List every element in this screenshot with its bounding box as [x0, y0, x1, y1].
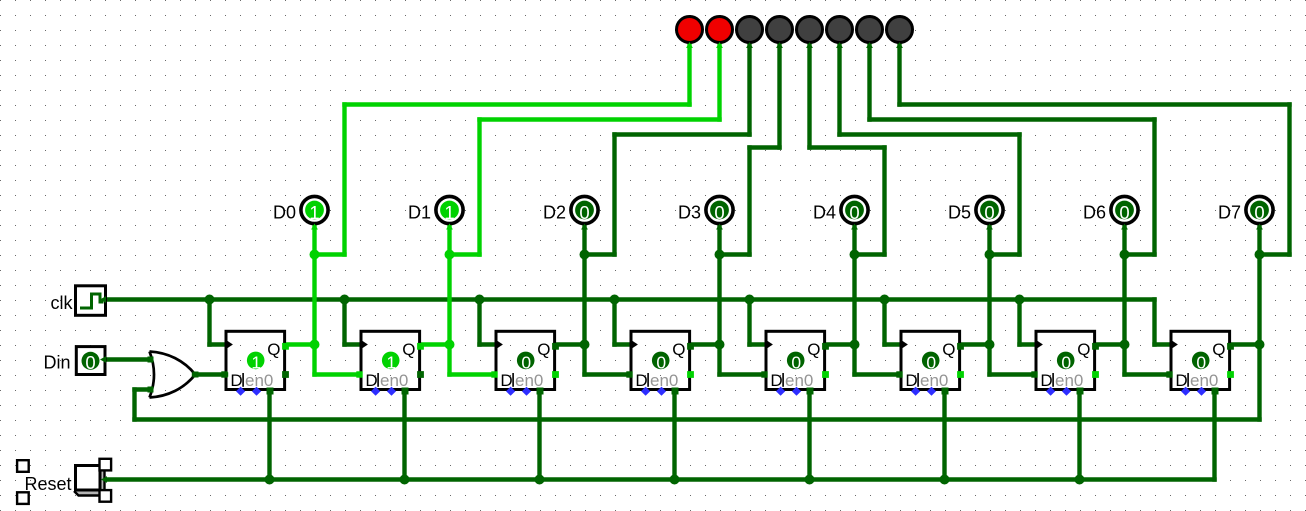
- wire reset to FF8: [1212, 391, 1216, 480]
- output pin D1: [436, 196, 463, 223]
- junction reset bus: [805, 475, 815, 485]
- junction reset bus: [265, 475, 275, 485]
- pin FF6 async S (unconnected): [911, 387, 920, 396]
- pin FF4 Q: [687, 343, 694, 350]
- clock component clk: [76, 286, 106, 316]
- junction clk bus: [880, 295, 890, 305]
- svg-text:1: 1: [251, 352, 261, 372]
- pin arrow LED L1: [686, 42, 693, 48]
- wire net0 into FF2 D: [315, 372, 360, 376]
- pin OR input 2: [148, 387, 154, 393]
- pin arrow D0: [311, 224, 318, 230]
- junction net5 Q row: [985, 340, 995, 350]
- junction net0 Q row: [310, 340, 320, 350]
- svg-text:Q: Q: [1077, 340, 1090, 359]
- wire net0: [315, 252, 345, 256]
- wire net2 top: [615, 132, 750, 136]
- svg-text:Q: Q: [672, 340, 685, 359]
- svg-text:0: 0: [1196, 352, 1206, 372]
- flip-flop FF7: [1036, 331, 1095, 390]
- wire net6 pin column: [1122, 223, 1126, 345]
- pin FF2 en (unconnected): [387, 387, 396, 396]
- wire clk into FF5: [750, 342, 767, 346]
- pin FF2 Qbar: [417, 371, 424, 378]
- svg-text:0: 0: [656, 352, 666, 372]
- svg-text:D7: D7: [1218, 203, 1241, 223]
- selection handle: [100, 490, 112, 502]
- selection handle: [100, 459, 112, 471]
- pin FF7 D input: [1031, 371, 1037, 377]
- wire net6 to D of FF8: [1122, 345, 1126, 375]
- wire net5 LED drop: [837, 43, 841, 135]
- junction net1: [445, 250, 455, 260]
- svg-text:0: 0: [1061, 352, 1071, 372]
- pin arrow LED L8: [896, 42, 903, 48]
- wire reset bus: [104, 477, 1215, 481]
- wire clk bus: [104, 297, 1155, 301]
- svg-text:en0: en0: [920, 371, 948, 390]
- svg-text:en0: en0: [785, 371, 813, 390]
- pin FF2 D input: [356, 371, 362, 377]
- wire clk into FF3: [480, 342, 497, 346]
- svg-text:D2: D2: [543, 203, 566, 223]
- pin FF4 Qbar: [687, 371, 694, 378]
- svg-text:Q: Q: [807, 340, 820, 359]
- wire net0 LED drop: [687, 43, 691, 105]
- wire clk drop FF6: [882, 300, 886, 345]
- wire net6 riser: [1152, 120, 1156, 255]
- button Reset 3D base: [74, 464, 105, 496]
- wire net2: [585, 252, 615, 256]
- wire net7: [1260, 252, 1290, 256]
- pin FF5 Qbar: [822, 371, 829, 378]
- wire net7 LED drop: [897, 43, 901, 105]
- pin FF3 Q: [552, 343, 559, 350]
- pin FF7 en (unconnected): [1062, 387, 1071, 396]
- svg-text:en0: en0: [1055, 371, 1083, 390]
- wire net1 LED drop: [717, 43, 721, 120]
- pin arrow LED L5: [806, 42, 813, 48]
- svg-text:Q: Q: [537, 340, 550, 359]
- wire net0 riser: [342, 105, 346, 255]
- wire net5 into FF7 D: [990, 372, 1035, 376]
- wire clk into FF6: [885, 342, 902, 346]
- junction clk bus: [1015, 295, 1025, 305]
- wire Q6 output: [961, 342, 990, 346]
- output pin D5: [976, 196, 1003, 223]
- wire net3 LED drop: [777, 43, 781, 148]
- pin arrow Din output: [100, 356, 106, 363]
- svg-text:en0: en0: [1190, 371, 1218, 390]
- pin FF7 Q: [1092, 343, 1099, 350]
- pin FF8 D input: [1166, 371, 1172, 377]
- pin FF2 async S (unconnected): [371, 387, 380, 396]
- pin FF5 Q: [822, 343, 829, 350]
- pin FF5 en (unconnected): [792, 387, 801, 396]
- LED L1: [677, 17, 703, 43]
- selection handle: [17, 492, 29, 504]
- pin arrow D2: [581, 224, 588, 230]
- pin arrow D7: [1256, 224, 1263, 230]
- pin FF5 R: [807, 388, 814, 395]
- wire net3 into FF5 D: [720, 372, 765, 376]
- pin FF1 Qbar: [282, 371, 289, 378]
- junction reset bus: [1075, 475, 1085, 485]
- wire net1 pin column: [447, 223, 451, 345]
- pin arrow D3: [716, 224, 723, 230]
- pin FF8 async S (unconnected): [1181, 387, 1190, 396]
- wire Q3 output: [556, 342, 585, 346]
- wire net1 into FF3 D: [450, 372, 495, 376]
- wire clk into FF8: [1155, 342, 1172, 346]
- pin FF4 R: [672, 388, 679, 395]
- wire feedback down: [1257, 345, 1261, 420]
- wire net0 to D of FF2: [312, 345, 316, 375]
- wire net5 pin column: [987, 223, 991, 345]
- flip-flop FF3: [496, 331, 555, 390]
- pin FF2 R: [402, 388, 409, 395]
- wire net3 top: [750, 145, 780, 149]
- pin FF3 Qbar: [552, 371, 559, 378]
- svg-text:0: 0: [791, 352, 801, 372]
- flip-flop FF6: [901, 331, 960, 390]
- wire clk into FF7: [1020, 342, 1037, 346]
- wire net3 to D of FF5: [717, 345, 721, 375]
- junction net3: [715, 250, 725, 260]
- wire clk drop FF8: [1152, 300, 1156, 345]
- junction net3 Q row: [715, 340, 725, 350]
- wire reset to FF5: [807, 391, 811, 480]
- wire clk into FF1: [210, 342, 227, 346]
- svg-text:0: 0: [714, 202, 724, 223]
- wire reset to FF6: [942, 391, 946, 480]
- svg-text:en0: en0: [650, 371, 678, 390]
- wire net7 top: [900, 102, 1290, 106]
- flip-flop FF5: [766, 331, 825, 390]
- LED L2: [707, 17, 733, 43]
- wire net6 into FF8 D: [1125, 372, 1170, 376]
- pin FF1 R: [267, 388, 274, 395]
- junction net0: [310, 250, 320, 260]
- svg-text:en0: en0: [245, 371, 273, 390]
- svg-text:Q: Q: [942, 340, 955, 359]
- wire net4 top: [810, 145, 885, 149]
- wire net6: [1125, 252, 1155, 256]
- pin FF7 async S (unconnected): [1046, 387, 1055, 396]
- svg-text:en0: en0: [380, 371, 408, 390]
- pin FF8 Q: [1227, 343, 1234, 350]
- wire net1: [450, 252, 480, 256]
- wire feedback bottom: [135, 417, 1260, 421]
- wire net4 to D of FF6: [852, 345, 856, 375]
- pin arrow D1: [446, 224, 453, 230]
- svg-text:D0: D0: [273, 203, 296, 223]
- pin FF6 Qbar: [957, 371, 964, 378]
- LED L6: [827, 17, 853, 43]
- wire net4: [855, 252, 885, 256]
- pin FF3 D input: [491, 371, 497, 377]
- pin FF3 R: [537, 388, 544, 395]
- svg-text:0: 0: [579, 202, 589, 223]
- wire reset to FF3: [537, 391, 541, 480]
- svg-text:1: 1: [444, 202, 454, 223]
- pin FF1 D input: [221, 371, 227, 377]
- pin FF6 D input: [896, 371, 902, 377]
- pin FF3 async S (unconnected): [506, 387, 515, 396]
- wire net4 riser: [882, 148, 886, 255]
- flip-flop FF8: [1171, 331, 1230, 390]
- pin FF1 async S (unconnected): [236, 387, 245, 396]
- svg-text:Q: Q: [1212, 340, 1225, 359]
- input pin Din: [76, 347, 105, 375]
- svg-text:D4: D4: [813, 203, 836, 223]
- pin FF4 async S (unconnected): [641, 387, 650, 396]
- junction net6 Q row: [1120, 340, 1130, 350]
- output pin D2: [571, 196, 598, 223]
- wire clk drop FF4: [612, 300, 616, 345]
- wire net7 pin column: [1257, 223, 1261, 345]
- svg-text:D3: D3: [678, 203, 701, 223]
- pin FF4 en (unconnected): [657, 387, 666, 396]
- wire clk drop FF3: [477, 300, 481, 345]
- output pin D6: [1111, 196, 1138, 223]
- wire Din to OR input: [104, 357, 151, 361]
- junction net2: [580, 250, 590, 260]
- wire net2 to D of FF4: [582, 345, 586, 375]
- wire net4 LED drop: [807, 43, 811, 148]
- pin arrow Reset output: [101, 476, 107, 483]
- svg-text:D1: D1: [408, 203, 431, 223]
- LED L5: [797, 17, 823, 43]
- junction net5: [985, 250, 995, 260]
- output pin D3: [706, 196, 733, 223]
- svg-text:0: 0: [984, 202, 994, 223]
- svg-text:0: 0: [521, 352, 531, 372]
- svg-text:clk: clk: [51, 293, 74, 313]
- wire net5 to D of FF7: [987, 345, 991, 375]
- wire clk drop FF2: [342, 300, 346, 345]
- svg-text:0: 0: [849, 202, 859, 223]
- LED L4: [767, 17, 793, 43]
- pin FF5 async S (unconnected): [776, 387, 785, 396]
- wire net6 top: [870, 117, 1155, 121]
- pin FF1 Q: [282, 343, 289, 350]
- button Reset face: [76, 466, 101, 491]
- svg-text:Q: Q: [402, 340, 415, 359]
- pin FF8 Qbar: [1227, 371, 1234, 378]
- pin FF8 R: [1212, 388, 1219, 395]
- wire net1 to D of FF3: [447, 345, 451, 375]
- junction clk bus: [340, 295, 350, 305]
- wire clk drop FF1: [207, 300, 211, 345]
- junction clk bus: [475, 295, 485, 305]
- wire net5 top: [840, 132, 1020, 136]
- svg-text:0: 0: [926, 352, 936, 372]
- pin arrow LED L3: [746, 42, 753, 48]
- svg-text:D6: D6: [1083, 203, 1106, 223]
- wire net2 riser: [612, 135, 616, 255]
- wire Q5 output: [826, 342, 855, 346]
- wire Q2 output: [421, 342, 450, 346]
- wire net3: [720, 252, 750, 256]
- pin FF6 R: [942, 388, 949, 395]
- pin arrow LED L2: [716, 42, 723, 48]
- junction net4: [850, 250, 860, 260]
- flip-flop FF1: [226, 331, 285, 390]
- wire clk into FF2: [345, 342, 362, 346]
- LED L7: [857, 17, 883, 43]
- wire net4 into FF6 D: [855, 372, 900, 376]
- pin arrow D5: [986, 224, 993, 230]
- wire net7 riser: [1287, 105, 1291, 255]
- output pin D4: [841, 196, 868, 223]
- junction clk bus: [745, 295, 755, 305]
- junction reset bus: [400, 475, 410, 485]
- wire reset to FF1: [267, 391, 271, 480]
- wire net1 riser: [477, 120, 481, 255]
- pin FF1 en (unconnected): [252, 387, 261, 396]
- wire OR output to FF1 D: [194, 372, 226, 376]
- wire net2 LED drop: [747, 43, 751, 135]
- wire net2 into FF4 D: [585, 372, 630, 376]
- junction reset bus: [535, 475, 545, 485]
- svg-text:Reset: Reset: [25, 474, 72, 494]
- svg-text:D5: D5: [948, 203, 971, 223]
- flip-flop FF2: [361, 331, 420, 390]
- junction clk bus: [610, 295, 620, 305]
- wire Q8 output: [1231, 342, 1260, 346]
- pin FF5 D input: [761, 371, 767, 377]
- svg-text:1: 1: [309, 202, 319, 223]
- junction reset bus: [670, 475, 680, 485]
- pin arrow D6: [1121, 224, 1128, 230]
- wire net1 top: [480, 117, 720, 121]
- output pin D7: [1246, 196, 1273, 223]
- junction net6: [1120, 250, 1130, 260]
- flip-flop FF4: [631, 331, 690, 390]
- pin FF3 en (unconnected): [522, 387, 531, 396]
- svg-text:Din: Din: [43, 353, 70, 373]
- pin FF8 en (unconnected): [1197, 387, 1206, 396]
- wire feedback up: [132, 390, 136, 420]
- pin arrow LED L6: [836, 42, 843, 48]
- wire clk drop FF7: [1017, 300, 1021, 345]
- svg-text:0: 0: [1254, 202, 1264, 223]
- svg-text:0: 0: [1119, 202, 1129, 223]
- svg-text:0: 0: [85, 352, 95, 373]
- junction net7: [1255, 250, 1265, 260]
- wire reset to FF7: [1077, 391, 1081, 480]
- output pin D0: [301, 196, 328, 223]
- junction reset bus: [940, 475, 950, 485]
- LED L3: [737, 17, 763, 43]
- wire net3 pin column: [717, 223, 721, 345]
- wire net4 pin column: [852, 223, 856, 345]
- wire Q4 output: [691, 342, 720, 346]
- or-gate G1: [150, 352, 196, 398]
- wire clk into FF4: [615, 342, 632, 346]
- wire reset to FF2: [402, 391, 406, 480]
- LED L8: [887, 17, 913, 43]
- junction net1 Q row: [445, 340, 455, 350]
- wire Q7 output: [1096, 342, 1125, 346]
- wire net6 LED drop: [867, 43, 871, 120]
- wire net2 pin column: [582, 223, 586, 345]
- wire net0 top: [345, 102, 690, 106]
- pin arrow D4: [851, 224, 858, 230]
- junction net7 Q row: [1255, 340, 1265, 350]
- pin FF6 en (unconnected): [927, 387, 936, 396]
- pin FF4 D input: [626, 371, 632, 377]
- pin arrow LED L7: [866, 42, 873, 48]
- pin FF7 Qbar: [1092, 371, 1099, 378]
- pin OR input 1: [148, 357, 154, 363]
- wire clk drop FF5: [747, 300, 751, 345]
- pin FF2 Q: [417, 343, 424, 350]
- junction clk bus: [205, 295, 215, 305]
- wire net3 riser: [747, 148, 751, 255]
- svg-text:1: 1: [386, 352, 396, 372]
- wire feedback to OR input: [135, 387, 152, 391]
- junction net4 Q row: [850, 340, 860, 350]
- pin OR output: [193, 372, 199, 378]
- svg-text:en0: en0: [515, 371, 543, 390]
- selection handle: [17, 460, 29, 472]
- wire net0 pin column: [312, 223, 316, 345]
- wire Q1 output: [286, 342, 315, 346]
- junction net2 Q row: [580, 340, 590, 350]
- wire net5: [990, 252, 1020, 256]
- pin arrow clk output: [100, 296, 106, 303]
- svg-text:Q: Q: [267, 340, 280, 359]
- wire reset to FF4: [672, 391, 676, 480]
- wire net5 riser: [1017, 135, 1021, 255]
- pin FF7 R: [1077, 388, 1084, 395]
- pin FF6 Q: [957, 343, 964, 350]
- pin arrow LED L4: [776, 42, 783, 48]
